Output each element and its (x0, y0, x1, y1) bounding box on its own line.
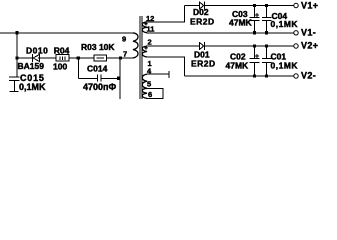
svg-text:V2+: V2+ (301, 40, 318, 50)
diode D01 (200, 43, 204, 50)
svg-text:47MK: 47MK (229, 18, 253, 28)
node: dot C01 bottom (265, 74, 268, 77)
node: junction dot between R04 and R03 (77, 56, 80, 59)
node: junction dot at pin7 branch (119, 56, 122, 59)
node: dot C01 top (265, 44, 268, 47)
plus mark of C03 (255, 14, 259, 16)
node: junction dot at bottom-left rail (15, 56, 18, 59)
capacitor C04 (266, 6, 268, 18)
svg-text:0,1MK: 0,1MK (271, 61, 299, 71)
svg-text:V1+: V1+ (301, 0, 318, 10)
svg-text:9: 9 (122, 34, 126, 43)
plus mark of C02 (255, 55, 259, 57)
svg-text:C014: C014 (87, 63, 108, 73)
winding 9-7 (left primary) (133, 33, 138, 58)
capacitor C01 (266, 46, 268, 58)
wire: R03 to transformer pin 7 (107, 57, 134, 59)
capacitor C015 (16, 58, 18, 77)
transformer T1 core (139, 16, 141, 99)
node: dot C02 bottom (253, 74, 256, 77)
wire: pin 5 stub and corner down (147, 88, 164, 99)
svg-text:V1-: V1- (301, 27, 316, 37)
node: junction dot on top-left rail (15, 31, 18, 34)
svg-text:47MK: 47MK (226, 61, 250, 71)
plus mark winding 12 (144, 23, 147, 25)
node: dot C04 bottom (265, 31, 268, 34)
resistor R04 (56, 55, 69, 62)
winding 12-11 (142, 22, 147, 33)
diode D02 (200, 2, 204, 9)
svg-text:2: 2 (148, 38, 152, 47)
node: dot C03 bottom (253, 31, 256, 34)
svg-text:0,1MK: 0,1MK (19, 82, 46, 92)
plus mark winding 2 (144, 47, 147, 49)
svg-text:5: 5 (147, 80, 151, 89)
node: dot C04 top (265, 4, 268, 7)
node: dot C02 top (253, 44, 256, 47)
winding 4-5-6 (tapped) (142, 74, 147, 98)
svg-text:0,1MK: 0,1MK (271, 19, 299, 29)
svg-text:BA159: BA159 (18, 61, 45, 71)
wire: vertical from top rail down to bottom-left rail (16, 33, 18, 58)
wire: V1- rail (pin 11) to terminal (147, 32, 294, 34)
wire: C014 left lead (78, 77, 97, 79)
capacitor C03 (electrolytic) (254, 6, 256, 18)
terminal V2- (294, 74, 298, 78)
wire: V2+ rail (pin 2) left of D01 (147, 45, 200, 47)
wire: V2- rail to terminal (185, 75, 294, 77)
svg-text:11: 11 (147, 25, 155, 34)
capacitor C014 (97, 75, 99, 82)
wire: D010 to R04 (38, 57, 56, 59)
wire: bottom-left rail segment to diode D010 (17, 57, 32, 59)
wire: R04 to R03 (69, 57, 94, 59)
wire: V1+ rail right of D02 to terminal (204, 5, 293, 7)
terminal V1+ (294, 3, 298, 7)
wire: V1+ rail left of D02 (185, 5, 200, 7)
wire: pin 12 stub and riser to V1+ rail (147, 6, 185, 22)
svg-text:6: 6 (148, 90, 152, 99)
svg-text:7: 7 (123, 50, 127, 59)
svg-text:ER2D: ER2D (190, 16, 215, 26)
svg-text:R03 10K: R03 10K (81, 42, 115, 52)
resistor R03 (94, 55, 107, 61)
node: dot C03 top (253, 4, 256, 7)
wire: C014 right lead (101, 77, 120, 79)
svg-text:V2-: V2- (301, 70, 316, 80)
wire: C014 left branch down (77, 58, 79, 78)
winding 2-1 (142, 46, 147, 57)
node: junction dot C014 right (117, 77, 120, 80)
svg-text:R04: R04 (54, 46, 70, 56)
svg-text:D010: D010 (26, 46, 48, 56)
wire: vertical branch down from pin7 node (continues off image) (119, 58, 121, 99)
wire: pin 1 stub and riser down to V2- rail (147, 57, 185, 76)
terminal V2+ (294, 44, 298, 48)
svg-text:4700пФ: 4700пФ (83, 82, 116, 92)
capacitor C02 (electrolytic) (254, 46, 256, 58)
wire: pin 6 stub (147, 97, 164, 99)
diode D010 (32, 54, 34, 62)
svg-text:100: 100 (53, 61, 67, 71)
wire: V2+ rail right of D01 to terminal (204, 45, 293, 47)
svg-text:12: 12 (146, 14, 154, 23)
terminal V1- (294, 31, 298, 35)
svg-text:ER2D: ER2D (191, 59, 216, 69)
wire: pin 4 stub with NC bar (147, 73, 169, 75)
wire: top-left rail to pin 9 (0, 32, 134, 34)
